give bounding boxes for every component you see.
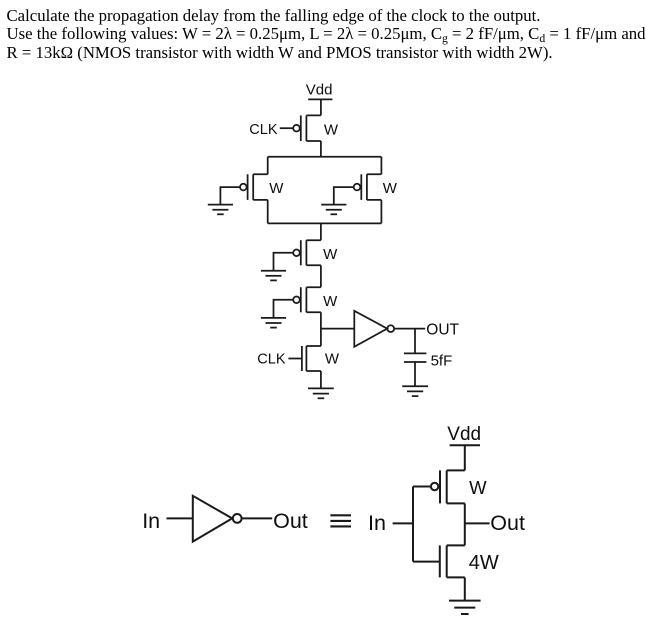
node B rail (bottom of parallel pair)	[268, 222, 382, 224]
ground (M4 gate)	[261, 271, 286, 281]
wire Vdd to Q1 source	[464, 445, 466, 470]
Vdd rail (top)	[308, 98, 332, 100]
ground (C1)	[402, 386, 428, 396]
node A rail (top of parallel pair)	[268, 156, 382, 158]
wire In to U2	[167, 517, 193, 519]
svg-text:4W: 4W	[469, 552, 499, 574]
wire M2 drain to node B	[267, 200, 269, 224]
svg-text:W: W	[323, 293, 338, 310]
wire M3 drain to node B	[380, 200, 382, 224]
transistor M4 (stacked PMOS, label W)	[293, 240, 321, 265]
wire M4 gate to ground	[274, 253, 294, 271]
wire M5 gate to ground	[274, 300, 294, 318]
svg-text:Vdd: Vdd	[306, 81, 333, 98]
wire CLK to M1 bubble	[280, 127, 293, 129]
svg-text:W: W	[383, 180, 398, 197]
wire gate trunk	[412, 487, 414, 562]
wire In to gate trunk	[393, 522, 413, 524]
transistor Q1 (PMOS, label W)	[431, 470, 465, 503]
ground (M5 gate)	[261, 318, 286, 328]
svg-text:W: W	[469, 477, 487, 498]
svg-text:Out: Out	[273, 509, 308, 533]
wire OUT node to capacitor C1	[414, 329, 416, 354]
ground (M2 gate)	[208, 205, 233, 215]
wire Vdd rail to M1 source	[320, 99, 322, 115]
equivalence symbol	[330, 515, 351, 526]
transistor Q2 (NMOS, label 4W)	[440, 545, 465, 577]
svg-text:Vdd: Vdd	[447, 424, 481, 445]
wire M1 drain to node A	[320, 141, 322, 157]
wire M2 gate to ground	[220, 187, 240, 205]
wire C1 to ground	[414, 362, 416, 386]
wire U1 output to OUT	[394, 328, 425, 330]
wire M3 gate to ground	[334, 187, 354, 205]
transistor M2 (left parallel PMOS, label W)	[240, 174, 268, 200]
svg-text:Out: Out	[490, 511, 525, 535]
problem statement text	[7, 7, 661, 63]
ground (M6 source)	[308, 388, 334, 398]
Vdd rail (bottom)	[450, 444, 480, 446]
wire Q1 drain to out node to Q2 drain	[464, 503, 466, 545]
svg-text:CLK: CLK	[249, 122, 278, 138]
svg-text:W: W	[325, 351, 340, 368]
wire node B to M4 source	[320, 223, 322, 240]
svg-text:CLK: CLK	[257, 351, 286, 367]
svg-text:In: In	[142, 509, 160, 533]
transistor M3 (right parallel PMOS, label W)	[354, 174, 382, 200]
wire node A left down to M2	[267, 157, 269, 175]
wire trunk to Q2 gate	[413, 561, 440, 563]
ground (M3 gate)	[321, 205, 346, 215]
wire out node to Out	[465, 522, 490, 524]
wire M6 source to ground	[320, 371, 322, 388]
svg-text:W: W	[323, 246, 338, 263]
svg-text:In: In	[368, 511, 386, 535]
capacitor C1 (5fF)	[404, 353, 426, 362]
op-amp U2 (inverter symbol)	[193, 496, 242, 542]
wire M5 drain to node C and M6 drain	[320, 312, 322, 346]
wire CLK to M6 gate	[288, 358, 302, 360]
transistor M1 (PMOS, gate CLK, label W)	[293, 115, 321, 141]
op-amp U1 (output inverter)	[354, 311, 394, 347]
wire trunk to Q1 bubble	[413, 486, 431, 488]
svg-text:W: W	[269, 180, 284, 197]
svg-text:OUT: OUT	[426, 322, 459, 339]
svg-text:W: W	[324, 121, 339, 138]
wire node C to inverter input	[321, 328, 354, 330]
svg-text:5fF: 5fF	[431, 352, 453, 369]
ground (Q2 source)	[449, 601, 481, 614]
wire Q2 source to ground	[464, 577, 466, 600]
transistor M5 (stacked PMOS, label W)	[293, 287, 321, 312]
transistor M6 (NMOS, gate CLK, label W)	[302, 346, 321, 371]
wire M4 drain to M5 source	[320, 265, 322, 287]
wire U2 output to Out	[242, 517, 272, 519]
wire node A right down to M3	[380, 157, 382, 175]
